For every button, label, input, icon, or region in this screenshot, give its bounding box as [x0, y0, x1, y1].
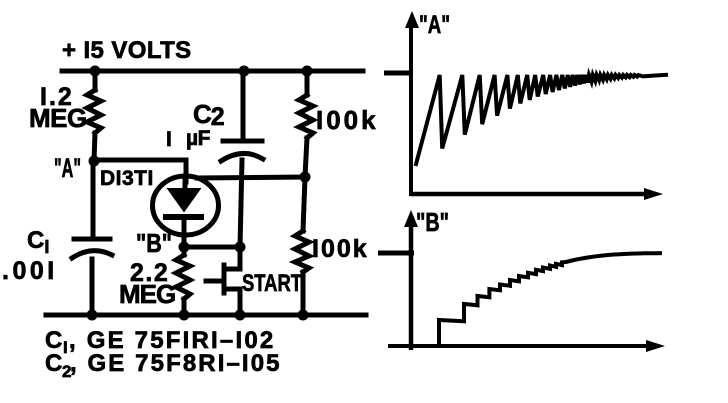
wire node B to 2.2MEG [182, 247, 187, 255]
capacitor C2 [221, 141, 263, 161]
resistor 1.2 MEG [87, 90, 101, 133]
svg-text:"A": "A" [54, 153, 81, 183]
graph A x-axis [411, 192, 648, 197]
wire left column upper [93, 71, 98, 90]
node junction top rail / C2 [239, 66, 250, 77]
graph A y-axis [409, 24, 413, 196]
svg-text:"A": "A" [419, 11, 450, 39]
node junction C1 / bottom rail [87, 310, 98, 321]
node B junction [179, 242, 190, 253]
svg-text:"B": "B" [416, 207, 449, 237]
graph B y-axis [409, 222, 414, 350]
svg-text:, GE 75F8RI–I05: , GE 75F8RI–I05 [70, 350, 282, 377]
svg-text:"B": "B" [136, 228, 172, 258]
graph B asymptote dash [378, 251, 414, 256]
resistor 2.2 MEG [176, 255, 190, 299]
transistor Q1 diode triangle [167, 188, 202, 213]
node junction 2.2MEG / bottom rail [179, 310, 190, 321]
svg-text:I00k: I00k [312, 235, 369, 263]
wire 2.2MEG to bottom rail [182, 299, 187, 315]
node junction top rail / 1.2MEG [90, 66, 101, 77]
graph A y-axis arrowhead [405, 11, 419, 28]
svg-text:C: C [45, 350, 62, 377]
graph B x-axis [388, 344, 650, 348]
switch START stem [206, 279, 221, 284]
wire C2 bottom lead to node B [240, 160, 242, 247]
svg-text:I: I [63, 338, 68, 357]
wire right column upper [305, 71, 310, 95]
wire 100k lower to bottom rail [301, 272, 306, 315]
svg-text:I00k: I00k [316, 105, 379, 135]
transistor Q1 anode lead [183, 178, 188, 192]
wire switch upper lead [226, 247, 240, 269]
svg-text:+ I5 VOLTS: + I5 VOLTS [62, 37, 192, 64]
svg-text:MEG: MEG [119, 279, 175, 309]
graph B y-axis arrowhead [404, 210, 418, 227]
wire 1.2MEG to node A [94, 133, 95, 161]
switch START actuator bar [222, 265, 227, 293]
svg-text:µF: µF [186, 127, 211, 150]
wire bottom rail [46, 313, 366, 318]
node junction gate wire / right column [300, 172, 311, 183]
node A junction [89, 156, 100, 167]
wire C2 top lead [241, 71, 246, 139]
wire 100k upper to gate node [305, 138, 307, 177]
transistor Q1 cathode bar [166, 214, 201, 220]
wire node A down to C1 [91, 161, 96, 237]
svg-text:START: START [242, 270, 302, 297]
wire node B horizontal [184, 245, 240, 250]
graph A x-axis arrowhead [644, 188, 663, 200]
label caption line C2 part number [45, 350, 282, 381]
node junction switch / bottom rail [235, 310, 246, 321]
wire gate node to 100k lower [303, 177, 305, 231]
graph A sawtooth waveform [416, 75, 669, 166]
graph A asymptote dash [384, 71, 413, 76]
svg-text:I: I [166, 128, 172, 151]
svg-text:DI3TI: DI3TI [100, 167, 154, 190]
svg-text:.00I: .00I [2, 257, 58, 285]
wire top +15V rail [62, 69, 363, 74]
node junction C2 / node B / switch [235, 242, 246, 253]
wire node A to anode of Q1 [94, 160, 186, 182]
graph B x-axis arrowhead [646, 340, 665, 352]
wire C1 to bottom rail [90, 259, 95, 315]
graph B staircase waveform [439, 253, 662, 344]
svg-text:MEG: MEG [29, 103, 87, 133]
transistor Q1 cathode lead to node B [182, 217, 187, 247]
node junction top rail / 100k [302, 66, 313, 77]
resistor 100k upper [299, 95, 313, 138]
resistor 100k lower [295, 231, 309, 272]
transistor Q1 D13T1 circle [153, 176, 219, 235]
switch START lower contact [229, 289, 240, 315]
label caption line C1 part number [45, 327, 275, 357]
wire Q1 gate to 100k divider node [197, 177, 305, 178]
node junction 100k / bottom rail [298, 310, 309, 321]
capacitor C1 [72, 239, 112, 258]
